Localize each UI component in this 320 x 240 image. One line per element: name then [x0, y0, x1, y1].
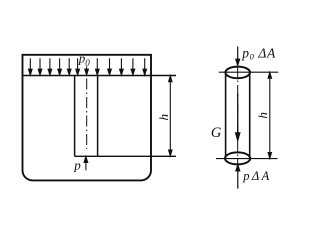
- svg-text:p0ΔA: p0ΔA: [241, 46, 276, 62]
- surface pressure arrows p0: [29, 58, 147, 75]
- svg-text:G: G: [211, 125, 222, 141]
- column bottom line (extends right as dimension extension line): [75, 155, 176, 157]
- force arrow p0*dA (down onto top ellipse): [236, 47, 240, 66]
- top extension line (through top ellipse): [219, 71, 278, 73]
- force arrow p*dA (up onto bottom ellipse): [236, 165, 240, 189]
- pressure arrow 7 (below p0 label, on column axis): [85, 67, 89, 76]
- liquid column right wall: [97, 76, 99, 157]
- liquid column left wall: [74, 76, 76, 157]
- cylinder left wall: [225, 72, 227, 158]
- svg-text:pΔA: pΔA: [242, 169, 271, 183]
- pressure arrow 10: [120, 58, 124, 75]
- pressure arrow 1: [29, 58, 33, 75]
- pressure arrow 4: [58, 58, 62, 75]
- cylinder right wall: [249, 72, 251, 158]
- svg-text:h: h: [156, 114, 171, 121]
- pressure p arrow at column bottom (pointing up): [84, 157, 88, 171]
- cylinder top ellipse: [225, 67, 250, 79]
- container vessel outline: [23, 55, 152, 181]
- pressure arrow 6: [76, 58, 80, 75]
- pressure arrow 8: [96, 58, 100, 75]
- pressure arrow 3: [48, 58, 52, 75]
- depth dimension h (left figure): [169, 76, 172, 156]
- pressure arrow 5: [67, 58, 71, 75]
- pressure arrow 12: [143, 58, 147, 75]
- column centerline (dash-dot): [86, 79, 88, 150]
- weight arrow G (down along axis): [236, 94, 240, 141]
- height dimension h (right figure): [268, 72, 271, 158]
- bottom extension line (through bottom ellipse): [216, 158, 278, 160]
- pressure arrow 2: [38, 58, 42, 75]
- svg-text:h: h: [255, 112, 270, 119]
- cylinder centerline (dash-dot): [237, 67, 239, 165]
- pressure arrow 11: [131, 58, 135, 75]
- cylinder bottom ellipse: [225, 152, 250, 164]
- liquid surface line (extends right as dimension extension line): [23, 75, 177, 77]
- svg-text:p: p: [73, 157, 81, 172]
- pressure arrow 9: [108, 58, 112, 75]
